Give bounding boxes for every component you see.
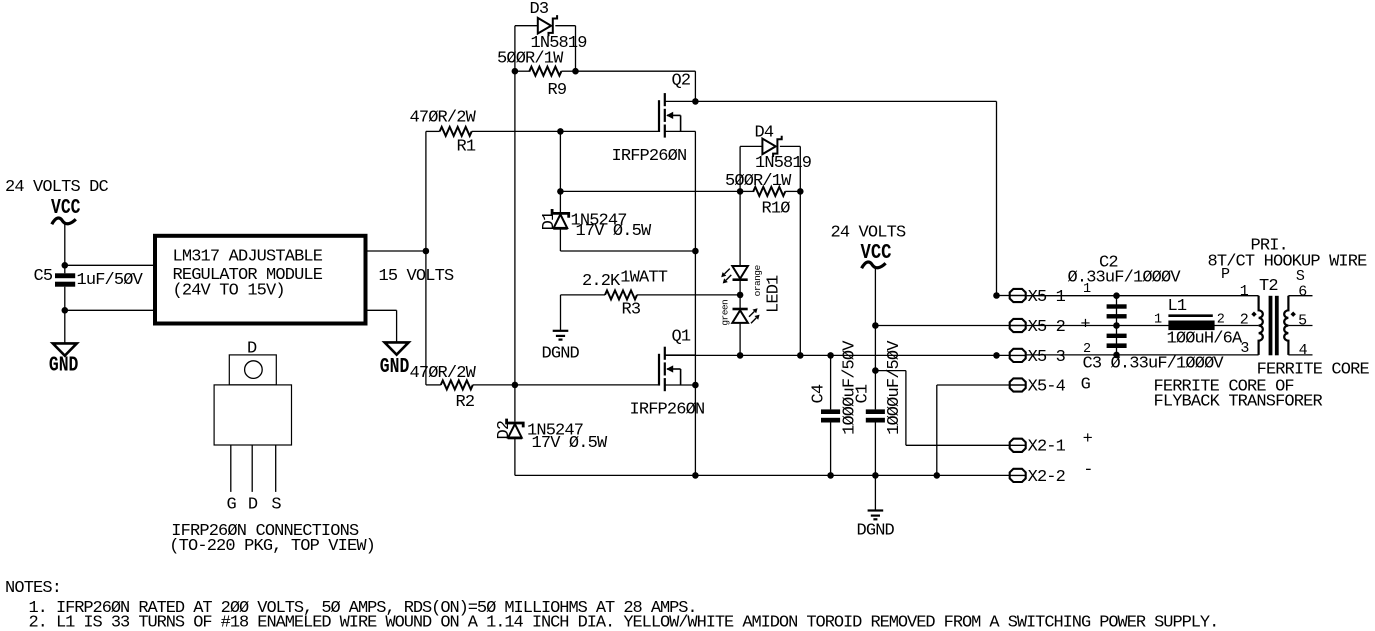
TO-220 body rectangle xyxy=(214,385,291,445)
svg-text:Q2: Q2 xyxy=(672,72,691,91)
node Q1 gate junction xyxy=(512,382,519,389)
LED1 green light arrow 1 xyxy=(749,312,754,317)
wire R9 right lead xyxy=(561,70,575,72)
svg-text:L1: L1 xyxy=(1168,297,1187,316)
wire Q2 drain to X5-1 horizontal xyxy=(695,100,996,102)
svg-text:DGND: DGND xyxy=(542,345,580,364)
svg-text:3: 3 xyxy=(1240,340,1249,357)
svg-text:2: 2 xyxy=(1217,312,1225,327)
svg-text:15 VOLTS: 15 VOLTS xyxy=(379,267,454,286)
wire D3 left xyxy=(515,25,538,27)
capacitor C4 top plate xyxy=(821,409,840,414)
svg-text:1N5819: 1N5819 xyxy=(755,154,812,173)
wire X5-1 stub xyxy=(997,295,1010,297)
svg-text:G: G xyxy=(1081,376,1091,395)
node C5 bottom junction xyxy=(62,307,69,314)
TO-220 leg G xyxy=(230,445,232,492)
wire T2 pin6 stub xyxy=(1288,295,1312,297)
svg-text:C1: C1 xyxy=(854,384,873,403)
transformer T2 secondary winding xyxy=(1284,296,1288,355)
wire D1 anode to source column xyxy=(560,250,695,252)
svg-text:1WATT: 1WATT xyxy=(620,269,667,288)
resistor R9 xyxy=(529,67,561,76)
wire R10 right to Q1 drain vertical xyxy=(799,191,801,355)
wire LED1 middle xyxy=(739,281,741,309)
node ground bus C1 junction xyxy=(872,472,879,479)
inductor L1 body xyxy=(1168,321,1214,331)
connector X2-2 pad xyxy=(1010,469,1026,482)
wire T2 pin4 stub xyxy=(1288,354,1312,356)
node R10 right junction xyxy=(797,188,804,195)
wire box 15V output xyxy=(367,250,426,252)
node X5-1 junction xyxy=(993,292,1000,299)
svg-text:+: + xyxy=(1083,430,1093,449)
wire box GND output horizontal xyxy=(367,309,396,311)
svg-text:R2: R2 xyxy=(456,393,475,412)
capacitor C1 bottom plate xyxy=(866,418,885,423)
transistor Q1 NMOS symbol xyxy=(659,347,665,392)
wire R10 right lead xyxy=(785,190,800,192)
svg-text:LM317 ADJUSTABLE: LM317 ADJUSTABLE xyxy=(173,248,323,267)
node X5-2 junction xyxy=(872,322,879,329)
wire D4 loop left vertical xyxy=(739,146,741,191)
wire X5-4 to ground bus vertical xyxy=(936,385,938,475)
wire ground bus horizontal xyxy=(515,474,937,476)
ground GND left triangle xyxy=(53,343,77,355)
wire R1 to Q2 gate xyxy=(472,130,659,132)
node D1 top junction xyxy=(557,188,564,195)
svg-text:Q1: Q1 xyxy=(672,328,691,347)
wire X2-2 horizontal xyxy=(937,474,1010,476)
svg-text:LED1: LED1 xyxy=(764,275,783,313)
wire D4 right xyxy=(780,145,800,147)
svg-text:47ØR/2W: 47ØR/2W xyxy=(410,109,477,128)
svg-text:X5 1: X5 1 xyxy=(1028,288,1066,307)
TO-220 leg D xyxy=(251,445,253,492)
svg-text:1ØØuH/6A: 1ØØuH/6A xyxy=(1167,329,1243,348)
transformer T2 core bars xyxy=(1269,296,1273,356)
svg-text:orange: orange xyxy=(752,265,763,297)
wire C5 top to regulator box xyxy=(65,264,154,266)
transformer T2 secondary phase dot xyxy=(1291,312,1296,317)
svg-text:X2-1: X2-1 xyxy=(1028,438,1066,457)
power symbol VCC right squiggle xyxy=(862,262,886,268)
node Q2 gate junction xyxy=(557,128,564,135)
svg-text:8T/CT HOOKUP WIRE: 8T/CT HOOKUP WIRE xyxy=(1208,253,1368,272)
capacitor C5 top plate xyxy=(55,273,75,278)
svg-text:1: 1 xyxy=(1154,312,1162,327)
svg-text:green: green xyxy=(720,300,731,326)
wire D1 anode down xyxy=(559,229,561,251)
svg-text:NOTES:: NOTES: xyxy=(5,579,61,598)
svg-text:D: D xyxy=(247,340,257,359)
node ground bus Q column junction xyxy=(692,472,699,479)
resistor R10 xyxy=(753,187,785,196)
node ground bus end junction xyxy=(934,472,941,479)
svg-text:6: 6 xyxy=(1298,283,1307,300)
wire X2-1 branch horizontal top xyxy=(875,370,906,372)
wire X2-1 branch vertical xyxy=(905,371,907,446)
svg-text:G: G xyxy=(227,496,237,515)
LED1 orange diode xyxy=(732,266,748,279)
wire D1 to R10 rail xyxy=(560,190,740,192)
svg-text:R9: R9 xyxy=(548,81,567,100)
svg-text:Ø.33uF/1ØØØV: Ø.33uF/1ØØØV xyxy=(1068,268,1182,287)
regulator module U1 box xyxy=(155,236,366,324)
svg-text:17V Ø.5W: 17V Ø.5W xyxy=(576,222,652,241)
wire X5-4 horizontal xyxy=(937,384,1010,386)
LED1 green diode xyxy=(733,308,748,311)
connector X5-4 pad xyxy=(1010,378,1026,391)
svg-text:5ØØR/1W: 5ØØR/1W xyxy=(497,50,564,69)
svg-text:X5-4: X5-4 xyxy=(1028,377,1066,396)
node C3 bottom junction xyxy=(1113,352,1120,359)
connector X5-2 pad xyxy=(1010,319,1026,332)
node ground bus C4 junction xyxy=(827,472,834,479)
node LED1 mid junction xyxy=(737,292,744,299)
wire Q2 gate to D1 xyxy=(559,131,561,212)
svg-text:+: + xyxy=(1080,315,1090,334)
wire C1 bottom lead xyxy=(874,423,876,476)
svg-text:VCC: VCC xyxy=(51,197,81,220)
resistor R2 xyxy=(441,380,473,389)
node R9 right junction xyxy=(572,68,579,75)
transformer T2 primary winding xyxy=(1259,296,1263,355)
wire R3 left lead xyxy=(561,294,606,296)
svg-text:P: P xyxy=(1221,266,1230,283)
svg-text:IRFP26ØN: IRFP26ØN xyxy=(612,147,687,166)
wire D3 right xyxy=(555,25,575,27)
svg-text:R1: R1 xyxy=(457,138,476,157)
svg-text:2.2K: 2.2K xyxy=(582,272,621,291)
svg-text:2. L1 IS 33 TURNS OF #18 ENAME: 2. L1 IS 33 TURNS OF #18 ENAMELED WIRE W… xyxy=(29,613,1219,631)
wire R2 left lead xyxy=(426,384,441,386)
svg-text:R1Ø: R1Ø xyxy=(762,199,791,218)
capacitor C2 bottom plate xyxy=(1107,314,1127,318)
capacitor C2 top plate xyxy=(1107,304,1127,308)
wire down to Q2 drain node xyxy=(694,71,696,101)
capacitor C5 bottom plate xyxy=(55,282,75,287)
node C2 C3 mid junction xyxy=(1113,322,1120,329)
wire R1 left lead xyxy=(426,130,440,132)
wire X2-1 branch to pad xyxy=(906,444,1010,446)
node X5-3 junction xyxy=(993,352,1000,359)
node R9 left junction xyxy=(512,68,519,75)
LED1 orange light arrow 1 xyxy=(725,269,730,274)
TO-220 tab rectangle xyxy=(229,355,276,385)
wire C5 bottom to regulator box xyxy=(65,309,154,311)
wire R10 node to LED1 top xyxy=(739,191,741,266)
connector X2-1 pad xyxy=(1010,439,1026,452)
wire C4 bottom lead xyxy=(830,423,832,476)
svg-text:X5 3: X5 3 xyxy=(1028,348,1066,367)
svg-text:17V Ø.5W: 17V Ø.5W xyxy=(532,434,608,453)
TO-220 leg S xyxy=(275,445,277,492)
wire VCC to C5 xyxy=(64,225,66,274)
node Q1 source junction xyxy=(692,382,699,389)
svg-text:(24V TO 15V): (24V TO 15V) xyxy=(173,281,285,300)
node C5 top junction xyxy=(62,262,69,269)
node C4 top junction xyxy=(827,352,834,359)
wire R10 left lead xyxy=(740,190,754,192)
wire R2 to Q1 gate xyxy=(473,384,659,386)
wire X5-2 to T2 pin2 rail xyxy=(1026,325,1259,327)
wire D2 anode to ground bus xyxy=(514,438,516,475)
wire R3 to LED1 mid xyxy=(637,294,740,296)
svg-text:1uF/5ØV: 1uF/5ØV xyxy=(77,271,144,290)
wire R9 to Q2 drain horizontal xyxy=(576,70,696,72)
svg-text:X2-2: X2-2 xyxy=(1028,468,1065,487)
LED1 green light arrow 2 xyxy=(751,318,756,323)
wire X5-1 to T2 pin1 rail xyxy=(1026,295,1259,297)
transformer T2 primary phase dot xyxy=(1251,312,1256,317)
LED1 orange light arrow 2 xyxy=(726,275,731,280)
svg-text:1: 1 xyxy=(1240,283,1249,300)
wire R9 left lead xyxy=(515,70,531,72)
svg-text:D: D xyxy=(248,496,258,515)
wire D4 loop right vertical xyxy=(799,146,801,191)
wire D3 loop right vertical xyxy=(575,26,577,71)
wire R3 to DGND xyxy=(560,295,562,331)
node C2 top junction xyxy=(1113,292,1120,299)
svg-text:4: 4 xyxy=(1299,342,1308,359)
svg-text:2: 2 xyxy=(1240,312,1248,329)
node X2-1 branch junction xyxy=(872,367,879,374)
wire Q1 drain to X5-3 rail xyxy=(665,354,1010,356)
wire LED1 bottom to Q1 drain rail xyxy=(739,324,741,356)
svg-text:5: 5 xyxy=(1298,313,1307,330)
ground DGND left symbol xyxy=(553,331,569,340)
connector X5-3 pad xyxy=(1010,349,1026,362)
svg-text:T2: T2 xyxy=(1259,277,1278,296)
diode D4 schottky xyxy=(762,139,775,155)
ground DGND right symbol xyxy=(868,511,884,520)
capacitor C3 bottom plate xyxy=(1107,343,1127,348)
svg-text:5ØØR/1W: 5ØØR/1W xyxy=(725,172,792,191)
wire X5-3 to T2 pin3 rail xyxy=(1026,354,1259,356)
power symbol VCC left squiggle xyxy=(52,218,76,224)
ground GND right triangle xyxy=(385,342,409,354)
svg-text:R3: R3 xyxy=(622,301,641,320)
transistor Q2 NMOS symbol xyxy=(659,93,665,138)
svg-text:(TO-220 PKG, TOP VIEW): (TO-220 PKG, TOP VIEW) xyxy=(169,537,375,556)
node D1 anode junction xyxy=(692,248,699,255)
TO-220 mounting hole xyxy=(245,361,263,379)
svg-text:IRFP26ØN: IRFP26ØN xyxy=(630,401,705,420)
connector X5-1 pad xyxy=(1010,289,1026,302)
node LED bottom junction xyxy=(737,352,744,359)
svg-text:1ØØØuF/5ØV: 1ØØØuF/5ØV xyxy=(885,340,904,435)
capacitor C3 top plate xyxy=(1107,334,1127,338)
wire Q1-gate column vertical xyxy=(514,26,516,422)
wire VCC to X5-2 xyxy=(875,325,1009,327)
diode D1 zener xyxy=(552,209,569,218)
svg-text:24 VOLTS: 24 VOLTS xyxy=(831,224,906,243)
wire T2 pin5 stub xyxy=(1288,325,1312,327)
node Q2 drain junction xyxy=(692,98,699,105)
resistor R3 xyxy=(605,290,637,299)
node 15 volts junction xyxy=(423,248,430,255)
wire C5 to GND xyxy=(64,287,66,344)
capacitor C4 bottom plate xyxy=(821,418,840,423)
node R10 left junction xyxy=(737,188,744,195)
wire D4 left xyxy=(740,145,762,147)
svg-text:24 VOLTS DC: 24 VOLTS DC xyxy=(5,178,109,197)
node R10 column junction xyxy=(797,352,804,359)
svg-text:X5 2: X5 2 xyxy=(1028,318,1065,337)
svg-text:C5: C5 xyxy=(34,267,53,286)
svg-text:S: S xyxy=(271,496,281,515)
resistor R1 xyxy=(440,127,472,136)
svg-text:GND: GND xyxy=(49,355,79,378)
capacitor C1 top plate xyxy=(866,409,885,414)
wire ground bus to DGND xyxy=(874,475,876,510)
svg-text:D3: D3 xyxy=(530,0,549,19)
wire box GND output vertical xyxy=(396,310,398,342)
wire VCC right vertical xyxy=(874,269,876,410)
svg-text:GND: GND xyxy=(380,356,410,379)
svg-text:-: - xyxy=(1083,461,1092,480)
diode D2 zener xyxy=(507,419,524,428)
diode D3 schottky xyxy=(538,18,551,34)
wire 15V column vertical xyxy=(425,131,427,385)
svg-text:DGND: DGND xyxy=(857,522,895,541)
wire Q2 source to ground bus vertical xyxy=(694,131,696,475)
svg-text:C3 Ø.33uF/1ØØØV: C3 Ø.33uF/1ØØØV xyxy=(1083,355,1225,374)
wire C4 top lead xyxy=(830,355,832,409)
svg-text:FLYBACK TRANSFORER: FLYBACK TRANSFORER xyxy=(1154,393,1323,412)
wire C2-C3 column xyxy=(1116,296,1118,355)
svg-text:C4: C4 xyxy=(809,384,828,403)
wire Q2 drain to X5-1 vertical xyxy=(996,101,998,295)
